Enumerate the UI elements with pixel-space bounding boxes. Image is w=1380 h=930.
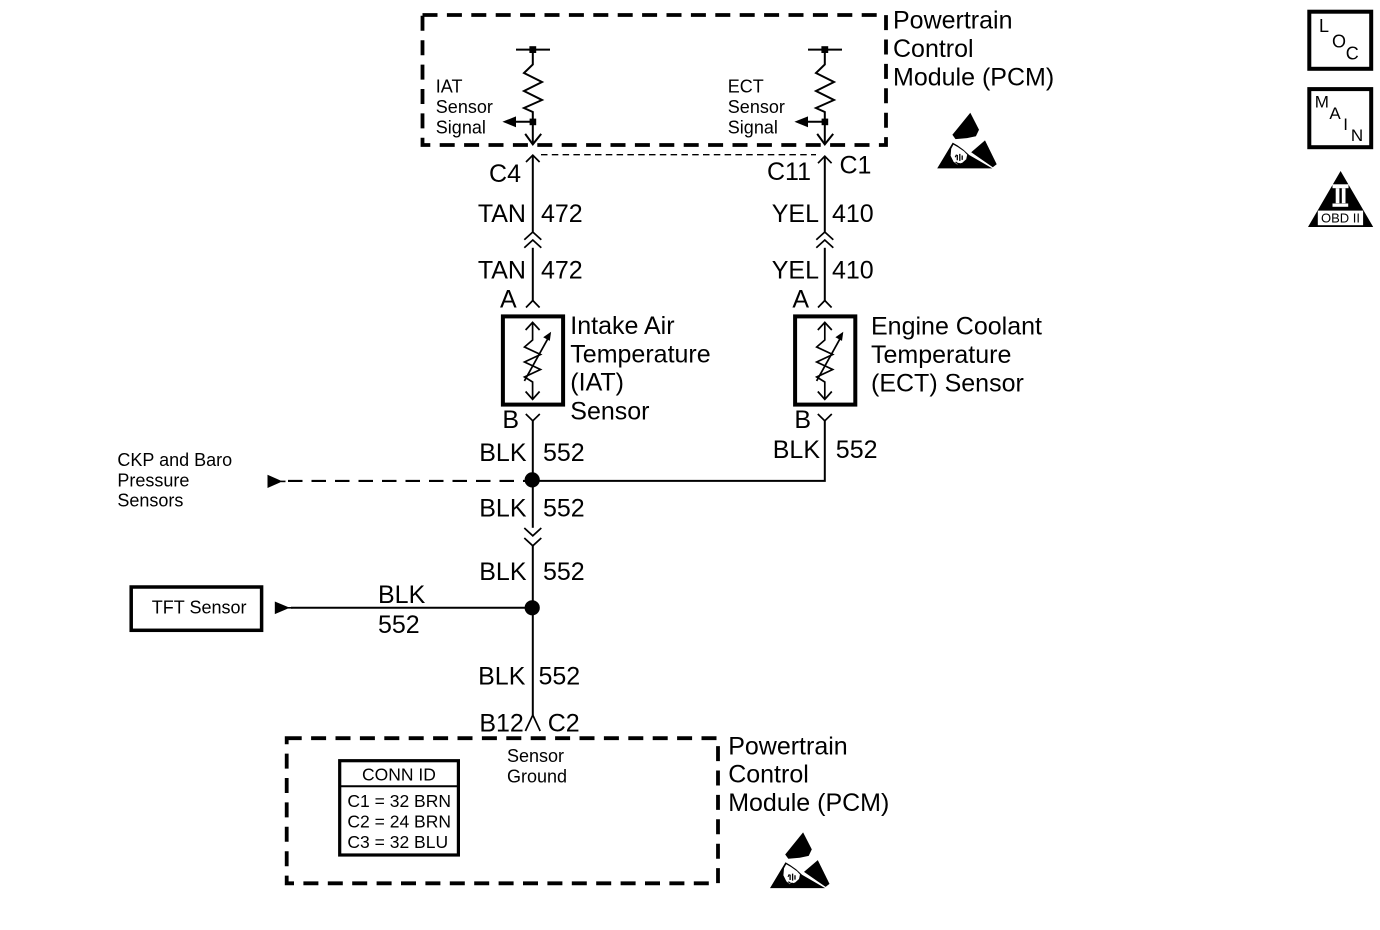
label C3 = 32 BLU xyxy=(347,832,448,852)
label B12 xyxy=(479,710,523,738)
label B (ECT pin) xyxy=(794,406,811,434)
svg-text:BLK: BLK xyxy=(773,436,821,464)
svg-text:Temperature: Temperature xyxy=(871,341,1011,369)
MAIN reference box xyxy=(1309,89,1371,147)
label: Engine Coolant Temperature (ECT) Sensor xyxy=(871,313,1042,398)
svg-text:BLK: BLK xyxy=(479,439,527,467)
svg-text:TAN: TAN xyxy=(478,200,526,228)
OBD II symbol xyxy=(1308,171,1373,227)
wire: ECT signal down to box edge with arrowhead xyxy=(817,122,833,145)
svg-text:B12: B12 xyxy=(479,710,523,738)
IAT signal tap arrow xyxy=(502,116,536,127)
svg-text:A: A xyxy=(500,286,517,314)
svg-text:Signal: Signal xyxy=(436,117,486,137)
svg-text:Module (PCM): Module (PCM) xyxy=(893,64,1054,92)
svg-text:C3 = 32 BLU: C3 = 32 BLU xyxy=(347,832,448,852)
dashed wire to CKP and Baro sensors xyxy=(288,480,527,482)
label C2 = 24 BRN xyxy=(347,812,451,832)
wire TAN 472 (lower) xyxy=(532,248,534,301)
wire BLK 552 (chevrons down to splice S2) xyxy=(532,546,534,608)
PCM dashed box (top) xyxy=(423,15,887,145)
label: Powertrain Control Module (PCM) top xyxy=(893,7,1054,92)
label BLK 552 (TFT branch) xyxy=(378,581,426,639)
svg-text:552: 552 xyxy=(539,663,581,691)
label: Powertrain Control Module (PCM) bottom xyxy=(728,733,889,817)
label BLK 552 (IAT B) xyxy=(479,439,584,467)
ESD warning symbol (bottom) xyxy=(770,832,830,888)
wire YEL 410 (upper) xyxy=(824,156,826,232)
svg-text:410: 410 xyxy=(832,200,874,228)
svg-text:552: 552 xyxy=(543,495,585,523)
wire BLK 552 (ECT B down and left to splice S1) xyxy=(533,421,825,481)
resistor R-ECT (PCM internal pull-up) xyxy=(808,46,842,119)
svg-text:B: B xyxy=(502,406,519,434)
svg-text:Sensors: Sensors xyxy=(117,491,183,511)
svg-text:Engine Coolant: Engine Coolant xyxy=(871,313,1042,341)
svg-text:Sensor: Sensor xyxy=(507,746,564,766)
svg-text:410: 410 xyxy=(832,257,874,285)
label B (IAT pin) xyxy=(502,406,519,434)
label C11 xyxy=(767,158,811,186)
svg-text:Signal: Signal xyxy=(728,117,778,137)
resistor R-IAT (PCM internal pull-up) xyxy=(516,46,550,119)
IAT sensor box xyxy=(503,316,563,404)
svg-text:Sensor: Sensor xyxy=(728,97,785,117)
svg-text:C: C xyxy=(1346,43,1359,63)
label BLK 552 (above S2) xyxy=(479,558,584,586)
svg-text:(IAT): (IAT) xyxy=(570,369,624,397)
svg-text:CKP and Baro: CKP and Baro xyxy=(117,450,232,470)
svg-text:A: A xyxy=(1329,104,1341,123)
thermistor symbol (ECT) xyxy=(817,322,844,399)
svg-text:Powertrain: Powertrain xyxy=(893,7,1013,35)
label A (IAT pin) xyxy=(500,286,517,314)
svg-text:BLK: BLK xyxy=(479,495,527,523)
label C1 xyxy=(840,152,872,180)
svg-text:Temperature: Temperature xyxy=(570,340,710,368)
label C2 xyxy=(548,710,580,738)
label: CKP and Baro Pressure Sensors xyxy=(117,450,232,511)
svg-text:ECT: ECT xyxy=(728,77,764,97)
svg-text:BLK: BLK xyxy=(479,558,527,586)
wire YEL 410 (lower) xyxy=(824,248,826,301)
wire BLK 552 (IAT B down to splice S1) xyxy=(532,421,534,481)
connector A symbol (ECT) xyxy=(818,301,832,308)
ECT signal tap arrow xyxy=(794,116,828,127)
connector B symbol (IAT) xyxy=(526,414,540,421)
svg-text:Module (PCM): Module (PCM) xyxy=(728,789,889,817)
svg-text:YEL: YEL xyxy=(772,200,819,228)
arrowhead to TFT sensor xyxy=(275,602,293,615)
LOC reference box xyxy=(1309,12,1371,69)
label BLK 552 (lower) xyxy=(478,663,580,691)
svg-text:OBD II: OBD II xyxy=(1321,211,1360,226)
svg-text:(ECT) Sensor: (ECT) Sensor xyxy=(871,370,1024,398)
TFT Sensor box xyxy=(131,587,261,630)
svg-text:C4: C4 xyxy=(489,160,521,188)
svg-text:Control: Control xyxy=(893,35,974,63)
label TAN 472 (lower) xyxy=(478,257,583,285)
svg-text:TFT Sensor: TFT Sensor xyxy=(152,598,247,618)
svg-text:N: N xyxy=(1351,126,1363,145)
label C1 = 32 BRN xyxy=(347,791,451,811)
label: ECT Sensor Signal xyxy=(728,77,785,138)
svg-text:C2 = 24 BRN: C2 = 24 BRN xyxy=(347,812,451,832)
svg-text:O: O xyxy=(1332,31,1346,51)
wire BLK 552 (S2 down to B12/C2) xyxy=(532,608,534,715)
label BLK 552 (below S1) xyxy=(479,495,584,523)
svg-text:YEL: YEL xyxy=(772,257,819,285)
svg-text:B: B xyxy=(794,406,811,434)
in-line connector dashed line C4/C1 xyxy=(541,154,816,156)
splice S1 xyxy=(525,472,540,487)
svg-text:C2: C2 xyxy=(548,710,580,738)
connector B symbol (ECT) xyxy=(818,414,832,421)
label YEL 410 (upper) xyxy=(772,200,874,228)
wire BLK 552 to TFT sensor xyxy=(291,607,533,609)
label C4 xyxy=(489,160,521,188)
svg-text:C1 = 32 BRN: C1 = 32 BRN xyxy=(347,791,451,811)
thermistor symbol (IAT) xyxy=(524,322,551,399)
svg-text:IAT: IAT xyxy=(436,77,463,97)
svg-text:C11: C11 xyxy=(767,158,811,186)
PCM dashed box (bottom) xyxy=(287,738,718,883)
connector A symbol (IAT) xyxy=(526,301,540,308)
svg-text:472: 472 xyxy=(541,257,583,285)
splice chevrons (BLK wire, down) xyxy=(524,528,541,546)
svg-text:C1: C1 xyxy=(840,152,872,180)
svg-text:Control: Control xyxy=(728,761,809,789)
label TFT Sensor xyxy=(152,598,247,618)
svg-text:Intake Air: Intake Air xyxy=(570,312,674,340)
svg-text:Sensor: Sensor xyxy=(436,97,493,117)
svg-text:552: 552 xyxy=(543,558,585,586)
label: Intake Air Temperature (IAT) Sensor xyxy=(570,312,710,425)
splice chevrons (TAN wire) xyxy=(524,232,541,248)
svg-text:552: 552 xyxy=(836,436,878,464)
svg-text:BLK: BLK xyxy=(378,581,426,609)
svg-text:CONN ID: CONN ID xyxy=(362,765,436,785)
svg-text:I: I xyxy=(1343,115,1348,134)
label: Sensor Ground xyxy=(507,746,567,786)
connector C4 symbol xyxy=(526,155,540,162)
splice S2 xyxy=(525,600,540,615)
svg-text:Ground: Ground xyxy=(507,766,567,786)
svg-text:Powertrain: Powertrain xyxy=(728,733,848,761)
svg-text:A: A xyxy=(792,286,809,314)
ESD warning symbol (top) xyxy=(937,113,997,169)
label A (ECT pin) xyxy=(792,286,809,314)
label TAN 472 (upper) xyxy=(478,200,583,228)
wire BLK 552 (S1 down to chevrons) xyxy=(532,481,534,528)
wire TAN 472 (upper) xyxy=(532,155,534,232)
svg-text:Sensor: Sensor xyxy=(570,397,649,425)
svg-text:Pressure: Pressure xyxy=(117,470,189,490)
label YEL 410 (lower) xyxy=(772,257,874,285)
svg-text:472: 472 xyxy=(541,200,583,228)
connector C1 symbol xyxy=(818,156,832,163)
ECT sensor box xyxy=(795,316,855,404)
svg-text:552: 552 xyxy=(378,611,420,639)
label: IAT Sensor Signal xyxy=(436,77,493,138)
label BLK 552 (ECT B) xyxy=(773,436,878,464)
svg-text:L: L xyxy=(1319,16,1329,36)
CONN ID table box xyxy=(340,761,459,855)
arrowhead to CKP/Baro sensors xyxy=(268,475,286,488)
svg-text:552: 552 xyxy=(543,439,585,467)
svg-text:BLK: BLK xyxy=(478,663,526,691)
wire: IAT signal down to box edge with arrowhead xyxy=(525,122,541,145)
svg-text:M: M xyxy=(1315,93,1329,112)
svg-text:TAN: TAN xyxy=(478,257,526,285)
label CONN ID xyxy=(362,765,436,785)
splice chevrons (YEL wire) xyxy=(816,232,833,248)
connector B12/C2 symbol xyxy=(525,715,540,731)
